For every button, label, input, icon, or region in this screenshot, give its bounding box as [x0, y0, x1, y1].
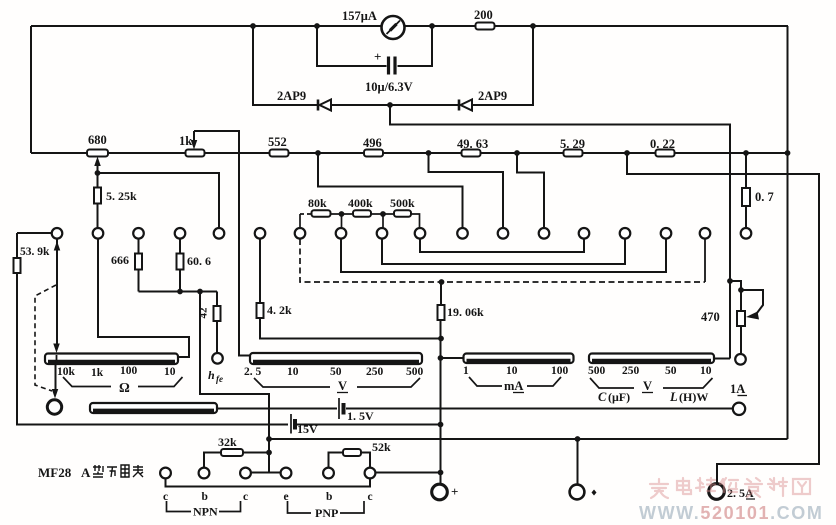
svg-text:b: b — [202, 491, 208, 503]
resistor 0.22 — [656, 150, 675, 157]
wire 680 wiper to circle5 — [98, 173, 220, 228]
resistor 4.2k — [257, 303, 264, 318]
diode D2 2AP9 — [459, 100, 472, 111]
node rail-diode junction — [250, 23, 256, 29]
svg-text:496: 496 — [363, 136, 382, 150]
resistor 5.29 — [564, 150, 583, 157]
resistor 680 (pot) — [87, 150, 108, 157]
wire line B — [269, 438, 788, 440]
wire wiper below bar — [55, 365, 57, 390]
svg-text:10: 10 — [287, 366, 299, 378]
socket circle 6 — [365, 468, 376, 479]
terminal circle row1-9 — [377, 228, 388, 239]
wire wiper down — [56, 250, 58, 344]
svg-text:157μA: 157μA — [342, 9, 377, 23]
resistor 400k — [353, 210, 371, 217]
resistor 53.9k — [14, 258, 21, 273]
node bus junction C — [514, 150, 520, 156]
wire top rail — [31, 25, 788, 27]
wire 5.25k bottom — [97, 204, 99, 229]
svg-text:h: h — [208, 368, 215, 382]
wire busA to circle10 — [318, 153, 463, 228]
battery 15V — [291, 414, 295, 434]
svg-text:680: 680 — [88, 133, 107, 147]
resistor 42 — [214, 306, 221, 321]
svg-text:NPN: NPN — [193, 505, 218, 519]
svg-text:10: 10 — [164, 366, 176, 378]
terminal circle row1-15 — [620, 228, 631, 239]
wire 470 bottom — [740, 326, 742, 354]
svg-text:32k: 32k — [218, 435, 237, 449]
wire dashed top segment 1 — [300, 213, 311, 215]
wire top segment 3 — [371, 213, 394, 215]
arrow 680 wiper — [97, 165, 99, 173]
wire 52k left — [329, 453, 344, 468]
terminal circle row1-6 — [255, 228, 266, 239]
svg-text:100: 100 — [551, 365, 569, 377]
node rail-cap-right junction — [429, 23, 435, 29]
arrow wiper onto ohm bar — [53, 344, 60, 354]
svg-text:4. 2k: 4. 2k — [267, 303, 292, 317]
node plus junction — [438, 470, 444, 476]
wire busD to right frame path — [627, 153, 819, 484]
wire bottom U link — [166, 479, 371, 487]
resistor 666 — [135, 254, 142, 270]
socket circle 1 — [160, 468, 171, 479]
wire circle1 left link — [17, 232, 52, 234]
svg-text:200: 200 — [474, 8, 493, 22]
wire main bus — [31, 152, 788, 154]
wire diode line left-mid — [331, 104, 390, 106]
node 15V line end junction — [438, 422, 444, 428]
svg-text:5. 25k: 5. 25k — [106, 189, 137, 203]
svg-text:1k: 1k — [179, 134, 192, 148]
svg-text:49. 63: 49. 63 — [457, 137, 488, 151]
node 470 junction — [727, 278, 733, 284]
terminal circle row1-11 — [457, 228, 468, 239]
wire 5.25k top — [97, 173, 99, 187]
svg-text:552: 552 — [268, 135, 287, 149]
wire 42 bottom — [216, 321, 218, 353]
socket circle 2 — [199, 468, 210, 479]
wire 666 top — [138, 239, 140, 253]
svg-text:c: c — [243, 491, 248, 503]
resistor 52k — [343, 449, 361, 456]
diode D1 2AP9 — [318, 100, 331, 111]
wire 291-line — [139, 291, 218, 293]
wire 500k tap down — [382, 214, 384, 228]
svg-text:5. 29: 5. 29 — [560, 137, 585, 151]
wire 15V line right — [297, 424, 441, 426]
svg-text:C: C — [598, 390, 607, 404]
resistor 60.6 — [177, 254, 184, 270]
node 400k-500k junction — [380, 211, 386, 217]
svg-text:1: 1 — [463, 365, 469, 377]
wire dashed box right side — [411, 214, 420, 228]
dashed mechanical link left — [35, 285, 56, 391]
wire 0.7 top — [745, 153, 747, 188]
label title CJK yong — [121, 465, 129, 477]
terminal circle row1-13 — [539, 228, 550, 239]
svg-text:1A: 1A — [730, 382, 745, 396]
node bus junction A — [315, 150, 321, 156]
svg-text:mA: mA — [504, 379, 523, 393]
svg-text:470: 470 — [701, 310, 720, 324]
svg-text:53. 9k: 53. 9k — [20, 246, 50, 258]
node bus junction D — [624, 150, 630, 156]
wire 1.5V to 1A terminal — [346, 408, 733, 410]
svg-text:19. 06k: 19. 06k — [447, 305, 484, 319]
wire 52k right — [361, 453, 370, 468]
node 60.6 junction — [177, 289, 183, 295]
terminal hfe — [212, 353, 223, 364]
svg-text:1. 5V: 1. 5V — [347, 409, 374, 423]
label title CJK wan — [107, 467, 117, 477]
watermark row1 CJK — [650, 479, 668, 498]
wire 1k wiper to V-bar — [194, 131, 250, 356]
wire dashed link 300-705 — [300, 239, 705, 282]
resistor 80k — [312, 210, 331, 217]
wire 53.9k vertical top — [16, 233, 18, 258]
wire circle2 to ohm bar hook — [98, 239, 189, 357]
svg-text:A: A — [81, 465, 91, 480]
switch bar slider2 — [90, 403, 217, 413]
svg-text:c: c — [368, 491, 373, 503]
meter M 157uA — [382, 16, 405, 39]
resistor 32k — [221, 449, 243, 456]
resistor 19.06k — [438, 305, 445, 320]
svg-text:52k: 52k — [372, 440, 391, 454]
terminal circle row1-14 — [579, 228, 590, 239]
wire top segment 2 — [331, 213, 353, 215]
switch bar mA — [464, 354, 574, 364]
wire 60.6 bottom — [179, 270, 181, 292]
node dashed link junction 19.06k — [439, 279, 445, 285]
svg-text:Ω: Ω — [119, 380, 130, 395]
svg-text:0. 7: 0. 7 — [755, 190, 774, 204]
svg-text:50: 50 — [665, 365, 677, 377]
svg-text:50: 50 — [330, 366, 342, 378]
terminal 2.5A — [709, 484, 725, 500]
wire capacitor right branch — [398, 26, 433, 66]
node bus junction B — [426, 150, 432, 156]
wire busC to circle12 — [517, 153, 544, 228]
wire 470 wiper loop — [741, 290, 763, 313]
wire bar2 to battery 1.5V — [217, 408, 337, 410]
brace mA — [469, 377, 561, 386]
brace C — [590, 378, 634, 388]
svg-text:80k: 80k — [308, 196, 327, 210]
wire 42 top — [216, 292, 218, 307]
node hfe-drop junction — [197, 289, 203, 295]
svg-text:10μ/6.3V: 10μ/6.3V — [365, 80, 413, 94]
node 338-line junction — [438, 336, 444, 342]
svg-text:400k: 400k — [348, 196, 373, 210]
svg-text:2AP9: 2AP9 — [277, 89, 306, 103]
wire star drop — [577, 439, 579, 485]
wire C-L bar to 470 vertical — [714, 358, 730, 360]
terminal plus — [432, 484, 448, 500]
wire 4.2k bottom to 338-line — [260, 318, 441, 339]
svg-text:10: 10 — [700, 365, 712, 377]
svg-text:fe: fe — [216, 374, 223, 384]
svg-text:15V: 15V — [297, 422, 318, 436]
terminal circle row1-10 — [415, 228, 426, 239]
switch bar ohm — [45, 354, 178, 365]
wire capacitor left branch — [317, 26, 387, 66]
label title CJK xing — [93, 465, 103, 477]
terminal circle row1-8 — [336, 228, 347, 239]
brace ohm — [63, 377, 183, 387]
svg-text:(μF): (μF) — [608, 390, 630, 404]
node rail-cap-left junction — [314, 23, 320, 29]
wire link 341-666 — [341, 239, 666, 272]
wire main center vertical — [440, 320, 442, 484]
wire link 420-584 — [420, 239, 584, 252]
wire diode junction drop to 124-line — [390, 105, 730, 359]
wire busB to circle11 — [429, 153, 504, 228]
wire hfe-junction down to 394-line — [200, 292, 269, 473]
node bus right end junction — [785, 150, 791, 156]
svg-text:L: L — [669, 390, 678, 404]
wire 60.6 top — [179, 239, 181, 253]
label title CJK biao — [133, 465, 143, 477]
svg-text:b: b — [326, 491, 332, 503]
svg-text:250: 250 — [366, 366, 384, 378]
resistor 49.63 — [462, 150, 481, 157]
svg-text:2. 5: 2. 5 — [244, 366, 262, 378]
arrow 470 wiper — [746, 312, 759, 320]
svg-text:500: 500 — [406, 366, 424, 378]
brace V — [254, 378, 420, 387]
socket circle 3 — [240, 468, 251, 479]
svg-text:500k: 500k — [390, 196, 415, 210]
node lineB star junction — [575, 436, 581, 442]
terminal below 470 — [735, 354, 746, 365]
svg-text:(H)W: (H)W — [679, 390, 708, 404]
battery 1.5V — [339, 398, 344, 419]
resistor 5.25k — [94, 188, 101, 204]
terminal circle row1-4 — [175, 228, 186, 239]
potentiometer 1k — [186, 150, 205, 157]
wire 470 top link — [730, 281, 741, 311]
wire 19.06k top — [440, 282, 442, 305]
svg-text:+: + — [451, 484, 458, 499]
arrow 1k wiper — [193, 131, 195, 140]
resistor 470 — [737, 311, 745, 326]
wire 400k tap down — [341, 214, 343, 228]
terminal circle row1-3 — [133, 228, 144, 239]
arrow wiper up at circle1 — [56, 239, 58, 252]
svg-text:60. 6: 60. 6 — [187, 254, 211, 268]
svg-text:V: V — [338, 379, 347, 393]
resistor 500k — [394, 210, 411, 217]
resistor 200 — [476, 23, 495, 30]
big terminal ohm-com — [47, 400, 61, 414]
wire c-e link — [251, 472, 281, 474]
svg-text:666: 666 — [111, 253, 129, 267]
wire 32k left — [204, 453, 221, 468]
terminal circle row1-16 — [661, 228, 672, 239]
svg-text:10: 10 — [506, 365, 518, 377]
wire 4.2k top — [259, 239, 261, 303]
brace L — [663, 378, 713, 388]
svg-text:10k: 10k — [57, 366, 76, 378]
svg-text:V: V — [643, 379, 652, 393]
node lineB start junction — [266, 436, 272, 442]
switch bar C-L — [589, 354, 714, 364]
wire D2 to rail corner — [472, 26, 533, 105]
wire dashed box left side — [299, 214, 301, 228]
wire pnp-c to plus — [376, 472, 441, 474]
terminal circle row1-18 — [741, 228, 752, 239]
bracket NPN — [167, 501, 241, 512]
wire 0.7 bottom — [745, 206, 747, 228]
terminal circle row1-12 — [498, 228, 509, 239]
svg-text:0. 22: 0. 22 — [650, 137, 675, 151]
node 470 wiper junction — [738, 287, 744, 293]
svg-text:MF28: MF28 — [38, 465, 72, 480]
terminal 1A — [733, 403, 745, 415]
node 80k-400k junction — [339, 211, 345, 217]
wire right frame vertical — [787, 26, 789, 439]
node center-mA junction — [438, 355, 444, 361]
svg-text:250: 250 — [622, 365, 640, 377]
node 32k junction — [266, 450, 272, 456]
resistor 496 — [364, 150, 383, 157]
terminal circle row1-5 — [214, 228, 225, 239]
terminal circle row1-17 — [700, 228, 711, 239]
socket circle 5 — [323, 468, 334, 479]
wire 32k right — [243, 452, 269, 454]
svg-text:500: 500 — [588, 365, 606, 377]
arrow wiper to big terminal — [52, 389, 59, 399]
node rail-diode2 junction — [530, 23, 536, 29]
node 680 wiper junction — [95, 170, 101, 176]
bracket PNP — [288, 501, 365, 513]
socket circle 4 — [281, 468, 292, 479]
switch bar V — [250, 353, 422, 364]
svg-text:PNP: PNP — [315, 506, 338, 520]
wire link 705 riser — [704, 239, 706, 282]
wire rail to diode line drop — [253, 26, 317, 105]
terminal star — [570, 485, 585, 500]
svg-text:1k: 1k — [91, 367, 104, 379]
wire 666 bottom — [138, 270, 140, 292]
resistor 552 — [270, 150, 289, 157]
capacitor 10u/6.3V — [389, 57, 396, 75]
svg-text:+: + — [374, 49, 381, 64]
svg-text:2AP9: 2AP9 — [478, 89, 507, 103]
wire link 382-625 — [382, 239, 625, 264]
terminal circle row1-1 — [52, 228, 63, 239]
svg-text:100: 100 — [120, 365, 138, 377]
svg-text:WWW.520101.COM: WWW.520101.COM — [639, 503, 823, 523]
wire left frame vertical — [30, 26, 32, 153]
label star — [592, 490, 597, 496]
wire center to mA bar — [441, 357, 464, 359]
resistor 0.7 — [742, 188, 750, 206]
terminal circle row1-7 — [295, 228, 306, 239]
node bus junction E (0.7) — [743, 150, 749, 156]
wire 53.9k to bottom rail — [17, 273, 288, 425]
wire diode junction to D2 — [390, 104, 458, 106]
terminal circle row1-2 — [93, 228, 104, 239]
node diode junction — [387, 102, 393, 108]
